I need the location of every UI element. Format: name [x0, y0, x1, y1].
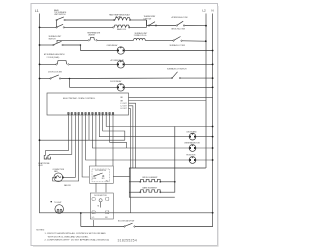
svg-text:BAKE ELEMENT: BAKE ELEMENT: [143, 187, 158, 190]
relay motor M2: [111, 59, 214, 68]
motor convection fan: [52, 169, 70, 187]
wire pin2 to probe lead 2: [49, 115, 72, 155]
svg-text:WITH DOOR CLOSED AND UNLOCKED.: WITH DOOR CLOSED AND UNLOCKED.: [48, 235, 89, 238]
wire stub S5 down to bottom run: [129, 108, 131, 212]
svg-text:DOOR LOCK SW: DOOR LOCK SW: [48, 72, 62, 74]
resistor bake element: [129, 187, 161, 193]
relay motor M1: [80, 44, 213, 54]
bake oven switch DPST S1: [39, 9, 67, 28]
switch door lot right: [167, 67, 214, 79]
svg-text:ALT BR: ALT BR: [116, 16, 123, 19]
svg-text:DOOR MOTOR: DOOR MOTOR: [94, 195, 107, 197]
wire pin1 to probe lead 1: [46, 115, 69, 155]
svg-text:CUT SWITCH: CUT SWITCH: [95, 170, 107, 172]
wire element feed from L2: [129, 168, 206, 197]
motor TR: [186, 155, 214, 164]
surface unit switch S2: [39, 35, 64, 46]
svg-text:AT OVEN RELAY: AT OVEN RELAY: [111, 59, 125, 62]
svg-text:OVEN FAN MOTOR: OVEN FAN MOTOR: [184, 142, 200, 145]
wire pin12 to rung P1: [106, 115, 213, 127]
pin labels right side: [121, 97, 128, 110]
interlock switch box: [90, 166, 131, 183]
svg-text:LIMIT SW: LIMIT SW: [144, 19, 152, 21]
wire pin10 to rung P2: [99, 115, 189, 137]
page shadow bottom edge: [33, 245, 219, 247]
svg-text:LK OUT: LK OUT: [121, 108, 128, 110]
switch broil hi-lo: [172, 16, 207, 31]
svg-text:BROIL ELEMENT: BROIL ELEMENT: [143, 177, 159, 179]
wire pin6 to rung P4: [86, 115, 190, 160]
svg-text:DOOR RELAY: DOOR RELAY: [110, 80, 122, 83]
svg-text:2 WIRE 1 PLUG: 2 WIRE 1 PLUG: [134, 35, 147, 37]
svg-text:2. COMPONENTS WITH * DO NOT A: 2. COMPONENTS WITH * DO NOT APPEAR ON AL…: [45, 238, 110, 241]
text part number: [118, 238, 138, 242]
motor oven fan: [184, 142, 214, 152]
wire lower bake rung: [64, 20, 146, 27]
svg-text:TR MOTOR: TR MOTOR: [186, 155, 196, 157]
svg-text:N: N: [211, 9, 213, 13]
svg-text:OVEN RELAY: OVEN RELAY: [107, 44, 119, 47]
door lock switch S3: [39, 72, 172, 88]
svg-text:BAKE COIL: BAKE COIL: [117, 28, 126, 31]
svg-text:LIMITER: LIMITER: [88, 35, 95, 37]
svg-text:AT SURFACE HIGH WITH: AT SURFACE HIGH WITH: [44, 53, 65, 56]
resistor broil element: [129, 177, 175, 183]
wire stub S2 L2 feed: [129, 100, 206, 102]
wire upper bake rung: [65, 20, 146, 26]
wire pin3 to fan lead 1: [63, 115, 76, 177]
svg-text:SURFACE LOT SW: SURFACE LOT SW: [170, 44, 186, 47]
op box electronic oven control U1: [47, 93, 129, 115]
text notes block: [36, 230, 109, 242]
wire stub S4: [129, 106, 133, 168]
svg-text:SWITCH: SWITCH: [49, 39, 57, 41]
wire pin8 to rung P3: [92, 115, 189, 148]
resistor surface element coil 2: [134, 32, 149, 41]
lamp oven light TL: [51, 201, 64, 213]
text surface note: [44, 53, 65, 59]
wire stub S3: [129, 103, 136, 168]
svg-text:FAN 120: FAN 120: [64, 184, 71, 187]
wire pin14 to interlock box: [112, 115, 114, 166]
svg-text:BROIL HI-LO SW: BROIL HI-LO SW: [172, 29, 186, 31]
wire element right rail: [160, 127, 175, 193]
svg-text:2 COILS (DUAL): 2 COILS (DUAL): [47, 56, 60, 59]
wire L2 bus: [205, 14, 207, 169]
thermostat switch top: [144, 15, 177, 26]
wire surface coil rung: [57, 39, 173, 41]
relay motor M3: [110, 80, 214, 91]
connector meat probe jack: [38, 155, 50, 167]
wire pin5 to interlock box: [82, 115, 89, 177]
wire N bus: [135, 14, 212, 227]
pin row bottom of control box: [68, 112, 114, 115]
wire pin9 to interlock box: [95, 115, 97, 166]
svg-text:NOTES:: NOTES:: [36, 230, 45, 232]
wire pin13 nest jog: [110, 115, 127, 148]
page border frame: [31, 4, 218, 246]
wire relay1 branch vertical: [64, 44, 82, 50]
thermal limiter TL1: [87, 32, 101, 41]
resistor bake element coil B: [113, 25, 130, 31]
wire L1 bus: [40, 14, 214, 214]
wire lamp junction drop: [80, 212, 82, 226]
thermal cutoff TCO2: [39, 61, 118, 66]
wire door box bottom link: [93, 220, 95, 227]
svg-text:1. CIRCUIT SHOWN WITH ALL CON: 1. CIRCUIT SHOWN WITH ALL CONTROLS SET I…: [45, 232, 107, 235]
svg-text:318255254: 318255254: [118, 238, 138, 242]
svg-text:COM: COM: [92, 178, 97, 180]
svg-text:ELECTRONIC OVEN CONTROL: ELECTRONIC OVEN CONTROL: [63, 98, 96, 100]
wire interlock to door motor links: [96, 183, 106, 192]
page shadow right edge: [217, 6, 219, 246]
resistor broil element coil A: [109, 14, 131, 21]
wire pin11 nest jog: [103, 115, 125, 140]
svg-text:AT BROIL/HI-LO SW: AT BROIL/HI-LO SW: [172, 16, 188, 19]
svg-text:B DOOR LATCH SW: B DOOR LATCH SW: [118, 220, 134, 223]
wire main rung from L1 mid: [39, 139, 125, 141]
svg-text:UNIT SWITCH: UNIT SWITCH: [54, 14, 66, 16]
svg-text:L1: L1: [35, 9, 39, 13]
svg-text:TL LIGHT: TL LIGHT: [54, 202, 62, 204]
page background: [0, 0, 250, 250]
svg-text:SURFACE LOT SWITCH: SURFACE LOT SWITCH: [167, 67, 187, 70]
wire N bottom segment to junction: [81, 226, 124, 228]
wire pin7 to rung L1 mid: [88, 115, 90, 140]
wire pin4 to fan loop lead: [53, 115, 79, 181]
switch surface right: [170, 37, 207, 48]
switch door latch bottom: [118, 220, 135, 228]
svg-text:L2: L2: [202, 9, 206, 13]
door latch motor box: [90, 193, 113, 219]
lamp LED board: [187, 130, 214, 140]
wire stub S1 to right: [129, 96, 213, 98]
